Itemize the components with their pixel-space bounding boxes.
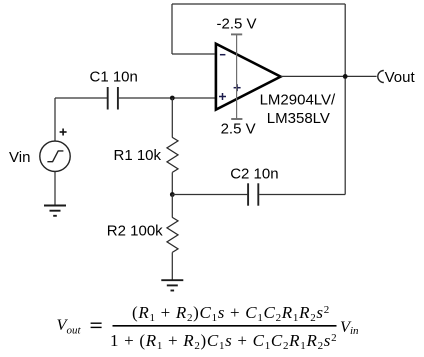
op-amp inverting input mark <box>220 54 226 56</box>
op-amp positive supply mark <box>234 84 241 91</box>
formula transfer function <box>57 303 360 352</box>
svg-text:Vin: Vin <box>9 149 30 166</box>
svg-text:C1 10n: C1 10n <box>90 69 138 86</box>
svg-text:R2 100k: R2 100k <box>107 223 163 240</box>
wire node to R2 top <box>171 195 173 218</box>
wire feedback right vertical <box>344 4 346 76</box>
svg-text:Vout: Vout <box>385 69 416 86</box>
wire feedback left vertical <box>171 4 173 54</box>
wire input horizontal to C1 <box>55 97 107 99</box>
ground below R2 <box>161 280 183 290</box>
svg-text:C2 10n: C2 10n <box>230 166 278 183</box>
resistor R2 <box>167 217 178 252</box>
ground below Vin <box>44 206 66 216</box>
negative supply pin bar <box>231 33 242 35</box>
wire R2 bottom to ground <box>171 252 173 280</box>
capacitor C1 <box>108 87 118 110</box>
wire node to C2 <box>172 194 247 196</box>
resistor R1 <box>167 137 178 172</box>
terminal Vout arc <box>378 71 384 83</box>
node output junction <box>343 74 348 79</box>
wire R1 bottom to node <box>171 172 173 194</box>
op-amp supply rail vertical <box>236 34 238 119</box>
svg-text:R1 10k: R1 10k <box>114 147 162 164</box>
positive supply pin bar <box>231 118 242 120</box>
voltage source Vin <box>40 141 70 171</box>
svg-text:-2.5 V: -2.5 V <box>217 16 257 33</box>
op-amp U1 <box>216 44 281 110</box>
wire op-amp output <box>281 75 377 77</box>
svg-text:(R1 + R2)C1s + C1C2R1R2s2: (R1 + R2)C1s + C1C2R1R2s2 <box>132 303 330 324</box>
svg-text:LM358LV: LM358LV <box>267 110 330 127</box>
capacitor C2 <box>248 183 258 205</box>
plus polarity mark <box>60 129 67 136</box>
wire Vin bottom to ground <box>54 172 56 206</box>
wire feedback top horizontal <box>172 3 345 5</box>
node junction C1/R1/+input <box>170 96 175 101</box>
wire C1 to op-amp noninverting input <box>119 97 215 99</box>
svg-text:2.5 V: 2.5 V <box>221 120 256 137</box>
wire inverting input horizontal <box>172 53 215 55</box>
wire C2 to right vertical <box>259 194 345 196</box>
svg-text:LM2904LV/: LM2904LV/ <box>260 91 336 108</box>
wire right vertical C2 to output node <box>344 76 346 194</box>
wire Vin top vertical <box>54 98 56 141</box>
node junction R1/R2/C2 <box>170 192 175 197</box>
wire node to R1 top <box>171 98 173 138</box>
op-amp noninverting input mark <box>219 93 226 100</box>
